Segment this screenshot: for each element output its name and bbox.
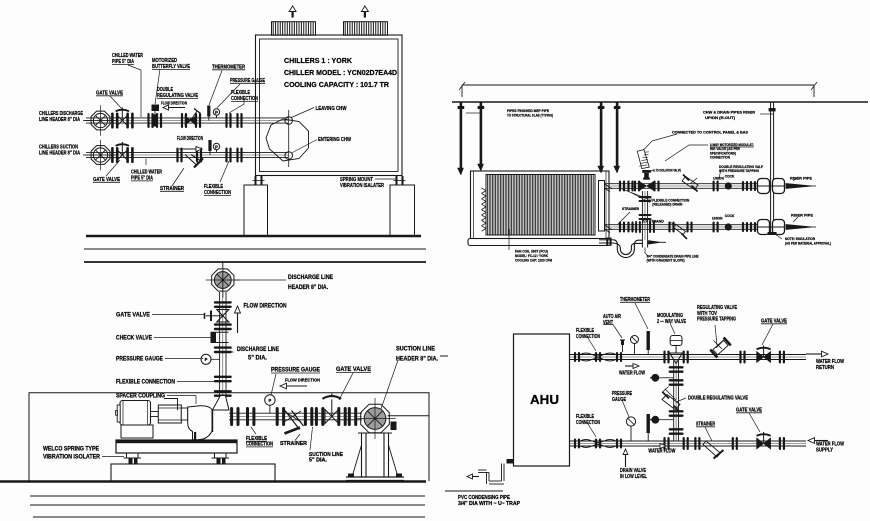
svg-text:FAN COIL UNIT (FCU): FAN COIL UNIT (FCU) — [515, 250, 549, 254]
flange pair suction 2 — [276, 407, 279, 426]
valve bypass drop to supply pipe — [641, 191, 643, 240]
ground under trap — [445, 490, 503, 492]
svg-text:D.Y STRAND: D.Y STRAND — [642, 218, 664, 223]
ground line BL thick — [0, 480, 426, 482]
label drain valve — [625, 455, 627, 468]
flange after strainer — [196, 148, 198, 163]
isolator foot right — [215, 453, 227, 458]
pressure gauge BR — [626, 417, 635, 426]
entering CHW nozzle circle — [285, 152, 293, 160]
svg-text:DISCHARGE LINE: DISCHARGE LINE — [237, 347, 279, 353]
pressure gauge discharge — [213, 109, 219, 115]
pedestal right — [390, 185, 415, 237]
label connected to control panel — [644, 134, 678, 150]
svg-text:FLOW DIRECTION: FLOW DIRECTION — [244, 304, 287, 310]
spring mount right — [396, 176, 398, 185]
pressure gauge BL discharge — [201, 354, 211, 364]
actuator stack — [643, 178, 650, 180]
svg-text:RISER PIPE: RISER PIPE — [791, 213, 813, 218]
stand base — [346, 476, 404, 478]
svg-text:FLOW DIRECTION: FLOW DIRECTION — [161, 100, 187, 105]
flange pair before riser bottom — [742, 222, 744, 232]
bypass vertical pipe — [673, 360, 675, 442]
svg-text:(RELEASED) DRAIN: (RELEASED) DRAIN — [652, 203, 682, 207]
support stand posts — [361, 433, 363, 477]
label condensate drain pipe — [645, 248, 648, 257]
thermometer suction — [208, 140, 211, 151]
chillers suction pipe — [86, 151, 288, 153]
label hanger rods — [466, 112, 480, 114]
return pipe top BR — [570, 354, 807, 356]
pressure gauge suction — [265, 395, 275, 405]
label cock isolation — [649, 170, 653, 172]
cock top bypass — [652, 374, 659, 381]
svg-text:CONNECTION: CONNECTION — [576, 420, 600, 426]
svg-text:FLOW DIRECTION: FLOW DIRECTION — [285, 378, 321, 383]
strainer suction — [185, 155, 196, 165]
riser bottom cap — [768, 232, 777, 235]
suction header octagon — [91, 146, 110, 165]
hanger rod 4 — [616, 102, 619, 166]
discharge vertical pipe — [219, 292, 221, 404]
fan 1 hatched — [272, 22, 316, 36]
svg-text:COOLING CAPACITY : 101.7 T: COOLING CAPACITY : 101.7 TR — [284, 82, 389, 89]
svg-text:ENTERING CHW: ENTERING CHW — [318, 137, 352, 143]
svg-text:NOTE: INSULATION: NOTE: INSULATION — [785, 236, 815, 241]
FCU label — [508, 229, 510, 250]
dimension line top — [462, 84, 814, 86]
svg-text:FLOW DIRECTION: FLOW DIRECTION — [177, 136, 203, 142]
spacer coupling leader — [164, 399, 178, 411]
svg-text:WATER FLOW: WATER FLOW — [619, 371, 645, 377]
svg-text:UNION: UNION — [712, 216, 723, 220]
gate valve discharge — [111, 113, 114, 129]
flexible connection discharge — [225, 113, 227, 128]
svg-text:A.TO ISOLATION VALVE: A.TO ISOLATION VALVE — [653, 168, 681, 172]
svg-text:STRAINER: STRAINER — [622, 207, 639, 211]
svg-text:VIBRATION ISOLATER: VIBRATION ISOLATER — [43, 455, 101, 461]
svg-text:TO STRUCTURAL SLAB (TYPING): TO STRUCTURAL SLAB (TYPING) — [507, 112, 554, 117]
pump pit rectangle — [29, 393, 429, 481]
arrow water flow supply — [815, 440, 829, 442]
gate valve bottom BR — [757, 438, 764, 449]
svg-text:LEAVING CHW: LEAVING CHW — [316, 106, 348, 112]
cock top — [725, 183, 731, 189]
flexible connection suction — [225, 148, 227, 163]
shaft 2 — [181, 408, 187, 420]
gate valve suction BL — [315, 407, 318, 426]
suction pipe BL — [229, 412, 362, 414]
svg-text:P: P — [215, 144, 218, 149]
svg-text:P: P — [205, 357, 208, 362]
ground line BL 4 — [33, 516, 425, 518]
discharge header octagon — [91, 111, 110, 130]
motor — [120, 401, 151, 426]
svg-text:CHECK VALVE: CHECK VALVE — [116, 336, 152, 342]
svg-text:COOLING CAP: 1200 CFM: COOLING CAP: 1200 CFM — [515, 259, 552, 263]
suction header octagon BL — [361, 404, 390, 433]
pressure gauge suction — [213, 143, 219, 149]
pipe jog stubs at fcu header — [605, 184, 613, 189]
svg-text:HEADER 8" DIA.: HEADER 8" DIA. — [396, 357, 438, 363]
union pair top — [713, 181, 715, 192]
FCU casing — [471, 171, 610, 239]
ground line 2 — [84, 248, 426, 250]
svg-text:SPACER COUPLING: SPACER COUPLING — [116, 394, 165, 400]
supply pipe bottom BR — [570, 440, 807, 442]
svg-text:SUPPLY: SUPPLY — [816, 447, 833, 453]
pump volute — [188, 406, 212, 440]
svg-text:2 — WAY VALVE: 2 — WAY VALVE — [657, 319, 686, 325]
water flow arrow mid bottom — [652, 445, 660, 447]
FCU right header bar — [599, 181, 605, 232]
svg-text:DISCHARGE LINE: DISCHARGE LINE — [288, 275, 333, 281]
left tick mark BR — [440, 355, 448, 357]
svg-text:HEADER 8" DIA.: HEADER 8" DIA. — [288, 285, 328, 291]
shaft — [151, 412, 159, 417]
label riser top right — [760, 113, 774, 115]
flange pair mid top — [739, 351, 741, 364]
svg-text:WELCO SPRING TYPE: WELCO SPRING TYPE — [43, 447, 99, 453]
svg-text:MODEL: FC-12 / YORK: MODEL: FC-12 / YORK — [515, 254, 548, 258]
svg-text:UP/DN (R.OUT): UP/DN (R.OUT) — [705, 116, 736, 120]
modulating 2-way valve BR — [663, 351, 665, 364]
svg-text:FLEXIBLE CONNECTION: FLEXIBLE CONNECTION — [116, 380, 175, 386]
svg-text:LINE HEADER 8" DIA: LINE HEADER 8" DIA — [39, 117, 80, 123]
svg-text:CHILLERS 1 : YORK: CHILLERS 1 : YORK — [284, 58, 352, 65]
svg-text:CHW & DRAIN PIPES RISER: CHW & DRAIN PIPES RISER — [703, 111, 755, 115]
label spring mount — [375, 178, 397, 180]
flange bypass join bottom — [663, 437, 665, 450]
arrow water flow return — [806, 353, 822, 355]
svg-text:P: P — [215, 110, 218, 115]
leaving CHW nozzle circle — [285, 117, 293, 125]
chiller unit box — [256, 35, 403, 176]
label 2-way motorized valve block — [665, 145, 708, 161]
svg-text:COCK: COCK — [725, 214, 735, 218]
thermometer dial top — [631, 336, 639, 344]
svg-text:VIBRATION ISALATER: VIBRATION ISALATER — [340, 183, 384, 189]
label dy strainer — [670, 222, 676, 226]
label discharge line header — [234, 279, 286, 281]
hanger rod 3 — [600, 102, 603, 166]
pump discharge cone — [213, 396, 230, 411]
pump discharge flange — [212, 410, 214, 432]
svg-text:UNION: UNION — [713, 176, 724, 180]
riser connection bottom (boss) — [758, 220, 770, 235]
label riser top — [793, 177, 798, 181]
gate valve vertical BL — [217, 310, 229, 316]
chillers discharge pipe — [86, 117, 288, 119]
hanger rod 2 — [480, 102, 483, 164]
svg-text:5" DIA.: 5" DIA. — [309, 458, 328, 464]
spring mount left — [255, 176, 257, 185]
arrow right top — [786, 184, 812, 189]
evaporator shell inside chiller — [266, 119, 309, 161]
label strainer small — [618, 212, 630, 224]
fcu supply pipe (bottom) — [605, 224, 767, 226]
label flexible connection TR — [622, 189, 652, 199]
label discharge line 5 dia — [222, 351, 234, 353]
spacer coupling — [158, 405, 181, 423]
actuator wand hatched — [637, 150, 649, 169]
motor base block — [121, 425, 153, 438]
flange pair v3 — [214, 346, 232, 348]
svg-text:RISER PIPE: RISER PIPE — [790, 176, 812, 181]
svg-text:GATE VALVE: GATE VALVE — [116, 313, 150, 319]
pipe clamp right of octagon — [391, 422, 397, 431]
arrow right bottom — [786, 225, 812, 230]
drain tee vertical — [641, 240, 643, 247]
leader leaving CHW — [292, 108, 315, 118]
svg-text:(WITH GRADIENT SLOPE): (WITH GRADIENT SLOPE) — [647, 259, 686, 263]
pump base plate — [116, 440, 237, 453]
svg-text:STRAINER: STRAINER — [280, 441, 307, 447]
gate valve suction — [111, 147, 114, 163]
nozzle centerline — [288, 110, 290, 167]
strainer BR — [694, 437, 696, 450]
flange pair v4 flexible — [214, 376, 232, 378]
svg-text:3/4" DIA WITH ~ U~ TRAP: 3/4" DIA WITH ~ U~ TRAP — [458, 501, 521, 507]
concrete pad — [111, 464, 275, 481]
ground line BL 2 — [30, 495, 425, 497]
svg-text:PRESSURE TAPPING: PRESSURE TAPPING — [697, 317, 736, 323]
svg-text:WATER FLOW: WATER FLOW — [648, 449, 675, 455]
thermometer discharge — [207, 106, 210, 117]
hanger rod 1 — [460, 102, 463, 168]
pedestal left — [244, 185, 268, 237]
svg-text:WITH PRESSURE TAPPING: WITH PRESSURE TAPPING — [719, 169, 759, 173]
ground line BL 3 — [30, 504, 425, 506]
flange before header — [348, 407, 351, 426]
flange pair suction 3 — [304, 407, 307, 426]
leader entering CHW — [292, 140, 318, 154]
condensate drain stub from FCU — [599, 239, 614, 241]
isolator foot left — [127, 453, 139, 458]
flange pair pump outlet — [230, 407, 233, 426]
union pair bottom — [713, 222, 715, 233]
gate valve top BR — [757, 352, 764, 363]
auto air vent — [622, 344, 624, 352]
svg-text:AHU: AHU — [530, 393, 559, 407]
right small rectangle — [428, 416, 430, 481]
flexible connection top BR — [574, 352, 576, 362]
drain dart arrow right — [649, 241, 661, 244]
fan 2 hatched — [344, 22, 388, 36]
drain tee crossing supply pipe — [635, 221, 637, 233]
FCU coil hatched block — [486, 175, 595, 236]
flow direction up arrow — [237, 313, 239, 333]
cock bottom — [725, 224, 731, 230]
svg-text:DOUBLE REGULATING VALVE: DOUBLE REGULATING VALVE — [688, 396, 748, 402]
condensate arrow — [473, 476, 480, 478]
thermometer bar top — [647, 331, 650, 350]
stand braces — [352, 445, 362, 477]
FCU left spring zigzag — [482, 188, 487, 191]
motorized butterfly valve — [147, 113, 149, 128]
water flow arrow mid top — [625, 365, 633, 367]
chw riser pipe — [770, 102, 772, 232]
svg-text:P: P — [269, 398, 272, 403]
ceiling slab line — [452, 101, 868, 103]
svg-text:GAUGE: GAUGE — [612, 397, 626, 403]
fcu return pipe (top) — [605, 183, 767, 185]
svg-text:RETURN: RETURN — [816, 365, 834, 371]
strainer BL — [284, 411, 301, 422]
AHU condensate U-trap — [501, 464, 503, 482]
thermometer bar bottom — [647, 414, 650, 433]
svg-text:CONNECTED TO CONTROL PANEL & B: CONNECTED TO CONTROL PANEL & BAS — [672, 130, 748, 135]
svg-text:VENT: VENT — [603, 320, 614, 326]
svg-text:CONNECTION: CONNECTION — [710, 155, 730, 159]
svg-text:(AS PER MATERIAL APPROVAL): (AS PER MATERIAL APPROVAL) — [785, 242, 832, 246]
flange pair v1 — [214, 301, 232, 303]
svg-text:COCK: COCK — [725, 175, 735, 179]
ground line thick — [86, 235, 421, 238]
label double regulating valve TR — [719, 171, 721, 180]
svg-text:SUCTION LINE: SUCTION LINE — [396, 347, 435, 353]
condensate U trap — [614, 240, 643, 258]
2-way valve with actuator wand — [634, 181, 636, 192]
cock bottom bypass — [652, 416, 659, 423]
note insulation — [775, 234, 782, 239]
fan 2 air flow arrow — [364, 12, 366, 18]
flange pair v2 — [214, 323, 232, 325]
AHU box — [514, 334, 570, 466]
flexible connection flanges BL — [246, 407, 249, 426]
label riser bottom — [793, 217, 798, 222]
AHU drain nipple — [507, 459, 514, 464]
discharge header octagon BL — [212, 269, 234, 291]
svg-text:CONNECTION: CONNECTION — [576, 334, 600, 340]
regulating valve with tappings — [709, 337, 731, 359]
flange pair v5 spacer — [214, 390, 232, 392]
riser connection top (boss) — [758, 179, 770, 194]
double regulating valve bypass — [662, 395, 680, 410]
dy strainer bottom — [668, 222, 670, 233]
check valve BL — [211, 332, 217, 342]
double regulating valve diagonal TR — [682, 177, 698, 190]
flexible connection top — [619, 181, 621, 192]
svg-text:CHILLER MODEL : YCN02D7EA4D: CHILLER MODEL : YCN02D7EA4D — [284, 70, 397, 77]
flexible connection bottom BR — [574, 439, 576, 449]
flexible connection bottom — [619, 222, 621, 233]
double regulating valve discharge — [181, 113, 183, 128]
svg-text:IN LOW LEVEL: IN LOW LEVEL — [620, 474, 648, 480]
fan 1 air flow arrow — [292, 12, 294, 18]
svg-text:PRESSURE GAUGE: PRESSURE GAUGE — [116, 357, 163, 363]
flange pair before riser top — [742, 181, 744, 191]
slab line BL — [84, 261, 426, 263]
svg-text:5" DIA.: 5" DIA. — [248, 356, 267, 362]
svg-text:LINE HEADER 8" DIA: LINE HEADER 8" DIA — [39, 151, 80, 157]
FCU bottom tray — [468, 239, 611, 246]
flange pair suction — [176, 148, 178, 163]
